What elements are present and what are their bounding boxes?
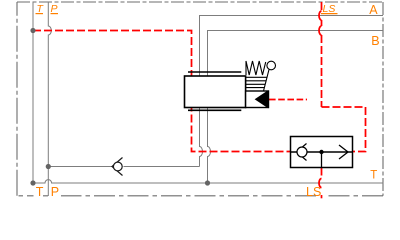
- wire valve port to P line vertical (hop over red pilot line): [200, 108, 203, 167]
- spring: [246, 61, 266, 75]
- valve upper port line: [188, 71, 241, 73]
- pilot line LS: node on T to valve left (red dashed): [33, 31, 192, 77]
- valve main body (pressure reducing cartridge): [185, 76, 246, 108]
- LS line right jog: [322, 107, 366, 152]
- node on P line (junction): [46, 164, 51, 169]
- pilot line from valve pilot triangle: [269, 99, 307, 101]
- check valve CV1 (ball check in P branch): [112, 158, 123, 176]
- svg-text:P: P: [51, 185, 59, 199]
- manifold boundary (dash-dot border): [17, 1, 383, 3]
- adjustment diagonal rod: [264, 70, 270, 92]
- wire check valve to valve A port: [124, 166, 200, 168]
- wire P branch horizontal to check valve: [48, 166, 112, 168]
- block internal flow line: [291, 151, 353, 153]
- wire P vertical (port P line, hop over red LS line): [48, 2, 51, 196]
- white gaps in border behind bottom labels: [34, 190, 44, 199]
- svg-text:LS: LS: [306, 185, 321, 199]
- svg-text:T: T: [370, 170, 377, 182]
- wire valve port B up and line B to right edge: [208, 31, 384, 77]
- svg-text:B: B: [371, 34, 379, 48]
- pilot triangle (flow element, filled): [256, 91, 268, 108]
- adjustment knob circle: [267, 61, 276, 70]
- svg-text:T: T: [36, 185, 44, 199]
- block LS tap node: [319, 150, 323, 154]
- block LS tap line down: [321, 152, 323, 168]
- LS bottom vertical (hop over T line): [321, 168, 323, 179]
- compensator / check block: [291, 137, 353, 168]
- node on T line bottom (junction): [30, 180, 35, 185]
- wire valve port A up and line A to right edge: [200, 16, 384, 77]
- wire T horizontal bottom (hop over P vertical): [33, 180, 384, 183]
- node valve-to-T junction: [205, 180, 210, 185]
- block check valve (ball + seat): [297, 144, 308, 161]
- node on T line top (junction): [30, 28, 35, 33]
- adjustment screw stack lines: [246, 77, 268, 87]
- wire valve port to T line vertical (hop over red pilot line): [208, 108, 211, 184]
- pilot line below valve: [192, 108, 291, 152]
- valve pilot box: [246, 91, 269, 108]
- wire T vertical (port T line): [32, 2, 34, 183]
- svg-text:A: A: [369, 3, 378, 17]
- block flow arrow: [339, 145, 348, 159]
- LS vertical from top border (hops over A and B lines): [321, 2, 323, 11]
- valve lower port line: [188, 109, 241, 111]
